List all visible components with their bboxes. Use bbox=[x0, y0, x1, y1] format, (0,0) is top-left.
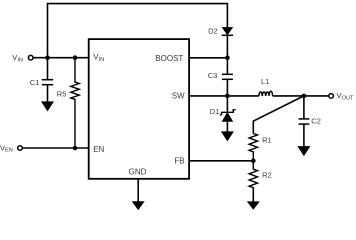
diode D1 (schottky catch diode) bbox=[220, 110, 236, 122]
terminal VIN (input port circle) bbox=[28, 55, 33, 60]
wire L1 to VOUT node and terminal bbox=[273, 95, 329, 97]
wire SW node down to D1 cathode bbox=[226, 96, 228, 112]
svg-text:FB: FB bbox=[174, 157, 184, 166]
wire VIN node down to C1 bbox=[47, 58, 49, 79]
wire BOOST pin to boost node bbox=[189, 57, 227, 59]
svg-text:R5: R5 bbox=[57, 89, 67, 98]
node junction dot EN/R5 bbox=[73, 146, 78, 151]
ground symbol at D1 bbox=[222, 132, 233, 141]
wire FB row: IC FB pin to divider node bbox=[189, 160, 253, 162]
svg-text:L1: L1 bbox=[261, 77, 269, 86]
svg-text:SW: SW bbox=[172, 91, 185, 100]
node junction dot FB divider bbox=[251, 159, 256, 164]
terminal VEN (enable port circle) bbox=[18, 146, 23, 151]
wire D1 anode to ground bbox=[226, 122, 228, 133]
node junction dot BOOST/C3 bbox=[225, 56, 230, 61]
wire D2 cathode to boost node bbox=[226, 36, 228, 58]
ground symbol at R2 bbox=[248, 202, 259, 209]
svg-text:GND: GND bbox=[129, 168, 147, 177]
resistor R1 bbox=[249, 134, 257, 161]
inductor L1 bbox=[259, 91, 273, 96]
svg-text:C3: C3 bbox=[208, 71, 218, 80]
svg-text:C2: C2 bbox=[311, 116, 321, 125]
node junction dot SW/D1 bbox=[225, 94, 230, 99]
capacitor C1 bbox=[42, 80, 53, 85]
wire top rail from VIN node to D2 anode bbox=[48, 4, 228, 58]
svg-text:C1: C1 bbox=[30, 78, 40, 87]
ground symbol at GND pin bbox=[133, 202, 144, 210]
svg-text:VIN: VIN bbox=[12, 53, 23, 63]
svg-text:D2: D2 bbox=[208, 27, 218, 36]
node junction dot VIN/R5 bbox=[73, 55, 78, 60]
wire EN row: VEN terminal to IC EN pin bbox=[22, 147, 88, 149]
wire C3 to SW node bbox=[226, 80, 228, 96]
svg-text:R1: R1 bbox=[262, 136, 272, 145]
wire GND pin down bbox=[137, 179, 139, 202]
svg-text:VOUT: VOUT bbox=[337, 91, 354, 101]
wire VIN terminal to IC VIN pin bbox=[33, 57, 89, 59]
wire C1 to ground bbox=[47, 85, 49, 103]
wire SW pin to L1 bbox=[189, 95, 259, 97]
op-amp U1 regulator IC body bbox=[89, 39, 189, 179]
svg-text:EN: EN bbox=[93, 145, 104, 154]
terminal VOUT (output port circle) bbox=[329, 94, 334, 99]
ground symbol at C1 bbox=[42, 102, 53, 111]
capacitor C3 bbox=[222, 74, 233, 79]
capacitor C2 bbox=[299, 119, 310, 124]
node junction dot VOUT/C2 bbox=[302, 94, 307, 99]
wire C2 to ground bbox=[303, 124, 305, 147]
wire diagonal VOUT node to R1 top bbox=[253, 96, 304, 134]
svg-text:D1: D1 bbox=[210, 107, 220, 116]
svg-text:R2: R2 bbox=[262, 171, 272, 180]
resistor R2 bbox=[249, 161, 257, 188]
resistor R5 bbox=[71, 58, 79, 148]
wire boost node down to C3 bbox=[226, 58, 228, 74]
ground symbol at C2 bbox=[298, 147, 309, 156]
svg-text:BOOST: BOOST bbox=[155, 54, 183, 63]
node junction dot VIN/C1 bbox=[45, 55, 50, 60]
wire VOUT node down to C2 bbox=[303, 96, 305, 119]
diode D2 bbox=[222, 28, 233, 36]
wire R2 to ground bbox=[252, 188, 254, 202]
svg-text:VEN: VEN bbox=[0, 143, 13, 153]
